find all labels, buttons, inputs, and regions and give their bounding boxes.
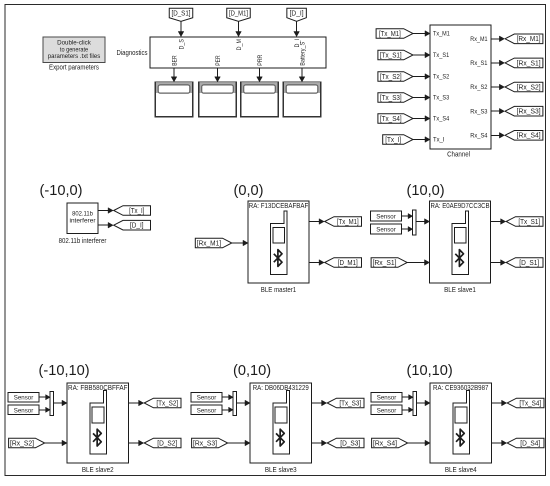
svg-text:BLE slave4: BLE slave4 xyxy=(445,465,477,474)
Diagnostics input port label D_I xyxy=(294,39,301,48)
svg-text:Tx_S3: Tx_S3 xyxy=(433,95,450,102)
annotation text (10,10) xyxy=(407,363,453,379)
Channel output port label Rx_S2 xyxy=(470,84,488,91)
svg-text:Tx_I: Tx_I xyxy=(433,137,445,144)
wire Channel -> goto tag [Rx_S4] xyxy=(491,131,543,141)
svg-text:Tx_S2: Tx_S2 xyxy=(433,74,450,81)
svg-text:(0,0): (0,0) xyxy=(234,183,264,199)
svg-text:BLE master1: BLE master1 xyxy=(261,285,296,294)
Diagnostics output port label PER xyxy=(215,55,222,66)
wire + goto tag [Tx_S1] from BLE slave1 xyxy=(491,217,544,227)
display scope for Battery_S xyxy=(283,82,321,117)
svg-text:Rx_M1: Rx_M1 xyxy=(470,36,488,43)
from tag [Rx_S2] -> BLE slave2 xyxy=(9,438,67,448)
svg-text:[Tx_M1]: [Tx_M1] xyxy=(337,219,359,226)
svg-text:[Rx_S1]: [Rx_S1] xyxy=(517,60,541,67)
wire + goto tag [Tx_I] from 802.11b interferer xyxy=(98,206,151,216)
from tag [D_I] xyxy=(287,8,307,21)
wire [D_I] -> Diagnostics xyxy=(294,21,300,36)
svg-text:BLE slave2: BLE slave2 xyxy=(82,465,114,474)
sensor blocks + mux for BLE slave3 xyxy=(191,391,250,415)
svg-text:[Rx_S2]: [Rx_S2] xyxy=(10,440,34,447)
svg-text:(10,0): (10,0) xyxy=(407,183,445,199)
Export parameters double-click block xyxy=(43,37,105,71)
wire [Tx_M1] -> Channel xyxy=(413,31,430,37)
wire + goto tag [D_M1] from BLE master1 xyxy=(309,258,362,268)
svg-text:Tx_S4: Tx_S4 xyxy=(433,116,450,123)
wire Channel -> goto tag [Rx_S2] xyxy=(491,82,543,92)
svg-text:RA: FBB580CBFFAF: RA: FBB580CBFFAF xyxy=(68,385,127,392)
wire + goto tag [Tx_M1] from BLE master1 xyxy=(309,217,362,227)
svg-text:[Rx_M1]: [Rx_M1] xyxy=(197,240,221,247)
svg-text:D_S: D_S xyxy=(178,39,185,50)
svg-text:[D_I]: [D_I] xyxy=(130,223,144,230)
svg-text:RA: E0AE9D7CC3CB: RA: E0AE9D7CC3CB xyxy=(430,203,489,210)
sensor blocks + mux for BLE slave2 xyxy=(8,391,67,415)
wire + goto tag [D_S4] from BLE slave4 xyxy=(492,438,545,448)
from tag [Rx_S3] -> BLE slave3 xyxy=(192,438,250,448)
wire + goto tag [D_S3] from BLE slave3 xyxy=(312,438,365,448)
wire [Tx_S2] -> Channel xyxy=(413,74,430,80)
svg-text:[D_I]: [D_I] xyxy=(290,11,304,18)
svg-text:Diagnostics: Diagnostics xyxy=(117,48,148,57)
svg-text:[Rx_S3]: [Rx_S3] xyxy=(517,109,541,116)
from tag [Tx_S1] xyxy=(378,50,413,60)
Channel output port label Rx_S4 xyxy=(470,133,488,140)
svg-text:[D_S1]: [D_S1] xyxy=(172,11,191,18)
Diagnostics input port label D_M xyxy=(236,39,243,50)
svg-text:[Tx_M1]: [Tx_M1] xyxy=(379,31,401,38)
svg-text:Export parameters: Export parameters xyxy=(49,62,99,71)
svg-text:[D_S4]: [D_S4] xyxy=(520,440,540,447)
wire + goto tag [D_S2] from BLE slave2 xyxy=(129,438,182,448)
Diagnostics subsystem block xyxy=(117,37,327,68)
svg-text:RA: CE936032B987: RA: CE936032B987 xyxy=(433,385,488,392)
svg-text:(0,10): (0,10) xyxy=(233,363,271,379)
Channel input port label Tx_M1 xyxy=(433,31,450,38)
Diagnostics output port label BER xyxy=(171,55,178,66)
Channel output port label Rx_S3 xyxy=(470,108,488,115)
wire [Tx_S4] -> Channel xyxy=(413,116,430,122)
svg-text:Channel: Channel xyxy=(447,150,470,159)
svg-text:Sensor: Sensor xyxy=(376,227,396,234)
svg-text:Sensor: Sensor xyxy=(377,395,397,402)
Channel input port label Tx_S4 xyxy=(433,116,450,123)
wire [D_S1] -> Diagnostics xyxy=(178,21,184,36)
svg-text:BER: BER xyxy=(171,55,178,66)
from tag [Rx_S4] -> BLE slave4 xyxy=(372,438,430,448)
from tag [D_M1] xyxy=(227,8,251,21)
display scope for PER xyxy=(199,82,237,117)
svg-text:Rx_S4: Rx_S4 xyxy=(470,133,488,140)
annotation text (-10,10) xyxy=(39,363,90,379)
svg-text:Rx_S2: Rx_S2 xyxy=(470,84,488,91)
svg-text:PRR: PRR xyxy=(257,54,264,66)
wire Diagnostics PRR -> display xyxy=(257,68,263,82)
svg-text:[Tx_S1]: [Tx_S1] xyxy=(518,219,540,226)
svg-text:(-10,0): (-10,0) xyxy=(40,183,83,199)
svg-text:Rx_S1: Rx_S1 xyxy=(470,60,488,67)
from tag [Tx_S4] xyxy=(378,114,413,124)
BLE slave4 block xyxy=(430,383,492,474)
Channel input port label Tx_S3 xyxy=(433,95,450,102)
svg-text:Sensor: Sensor xyxy=(14,395,34,402)
svg-text:[Rx_S3]: [Rx_S3] xyxy=(193,440,217,447)
svg-text:D_M: D_M xyxy=(236,39,243,50)
wire + goto tag [Tx_S4] from BLE slave4 xyxy=(492,398,545,408)
wire + goto tag [D_S1] from BLE slave1 xyxy=(491,258,544,268)
svg-text:Battery_S: Battery_S xyxy=(299,42,306,66)
Diagnostics input port label D_S xyxy=(178,39,185,50)
svg-text:Tx_M1: Tx_M1 xyxy=(433,31,450,38)
svg-text:[Tx_S3]: [Tx_S3] xyxy=(380,95,402,102)
svg-text:PER: PER xyxy=(215,55,222,66)
Diagnostics output port label Battery_S xyxy=(299,42,306,66)
svg-text:[Tx_S3]: [Tx_S3] xyxy=(339,400,361,407)
wire [D_M1] -> Diagnostics xyxy=(236,21,242,36)
from tag [Tx_S3] xyxy=(378,93,413,103)
Channel input port label Tx_S2 xyxy=(433,74,450,81)
svg-text:Sensor: Sensor xyxy=(197,407,217,414)
Channel subsystem block xyxy=(430,25,491,159)
svg-text:[Tx_S2]: [Tx_S2] xyxy=(156,400,178,407)
Channel output port label Rx_S1 xyxy=(470,60,488,67)
wire Channel -> goto tag [Rx_M1] xyxy=(491,34,543,44)
svg-text:[Rx_S1]: [Rx_S1] xyxy=(373,260,397,267)
svg-text:Sensor: Sensor xyxy=(376,214,396,221)
sensor blocks + mux for BLE slave4 xyxy=(371,391,430,415)
wire Diagnostics PER -> display xyxy=(215,68,221,82)
annotation text (-10,0) xyxy=(40,183,83,199)
svg-text:[Rx_S2]: [Rx_S2] xyxy=(517,84,541,91)
display scope for BER xyxy=(155,82,193,117)
svg-text:[Tx_S2]: [Tx_S2] xyxy=(380,74,402,81)
annotation text (0,0) xyxy=(234,183,264,199)
svg-text:Sensor: Sensor xyxy=(14,407,34,414)
svg-text:Rx_S3: Rx_S3 xyxy=(470,108,488,115)
wire Channel -> goto tag [Rx_S3] xyxy=(491,106,543,116)
svg-text:parameters .txt files: parameters .txt files xyxy=(48,53,101,60)
BLE slave3 block xyxy=(250,383,312,474)
sensor blocks + mux for BLE slave1 xyxy=(371,210,430,235)
wire [Tx_S3] -> Channel xyxy=(413,95,430,101)
Channel output port label Rx_M1 xyxy=(470,36,488,43)
from tag [D_S1] xyxy=(169,8,193,21)
svg-text:BLE slave1: BLE slave1 xyxy=(444,285,476,294)
svg-text:[Tx_I]: [Tx_I] xyxy=(385,137,401,144)
Channel input port label Tx_I xyxy=(433,137,445,144)
wire [Tx_S1] -> Channel xyxy=(413,52,430,58)
svg-text:[Rx_S4]: [Rx_S4] xyxy=(517,133,541,140)
annotation text (10,0) xyxy=(407,183,445,199)
svg-text:802.11b interferer: 802.11b interferer xyxy=(59,236,107,245)
annotation text (0,10) xyxy=(233,363,271,379)
wire Channel -> goto tag [Rx_S1] xyxy=(491,58,543,68)
from tag [Tx_I] xyxy=(383,135,413,145)
svg-text:[Tx_S1]: [Tx_S1] xyxy=(380,52,402,59)
svg-text:[D_S3]: [D_S3] xyxy=(340,440,360,447)
from tag [Tx_S2] xyxy=(378,72,413,82)
svg-text:[D_M1]: [D_M1] xyxy=(338,260,358,267)
svg-text:RA: F13DCEBAFBAF: RA: F13DCEBAFBAF xyxy=(249,203,309,210)
Channel input port label Tx_S1 xyxy=(433,52,450,59)
svg-text:[Rx_M1]: [Rx_M1] xyxy=(517,36,541,43)
svg-text:interferer: interferer xyxy=(70,218,97,225)
wire Diagnostics BER -> display xyxy=(171,68,177,82)
BLE master1 block xyxy=(248,201,309,294)
svg-text:Sensor: Sensor xyxy=(197,395,217,402)
wire + goto tag [D_I] from 802.11b interferer xyxy=(98,220,151,230)
Diagnostics output port label PRR xyxy=(257,54,264,66)
svg-text:[D_S1]: [D_S1] xyxy=(519,260,539,267)
svg-text:[Tx_I]: [Tx_I] xyxy=(129,208,144,215)
BLE slave1 block xyxy=(430,201,491,294)
svg-text:802.11b: 802.11b xyxy=(72,210,93,217)
from tag [Tx_M1] xyxy=(376,29,413,39)
display scope for PRR xyxy=(241,82,279,117)
svg-text:[Tx_S4]: [Tx_S4] xyxy=(519,400,541,407)
wire Diagnostics Battery_S -> display xyxy=(299,68,305,82)
wire [Tx_I] -> Channel xyxy=(413,137,430,143)
svg-text:(10,10): (10,10) xyxy=(407,363,453,379)
svg-text:Sensor: Sensor xyxy=(377,407,397,414)
svg-text:BLE slave3: BLE slave3 xyxy=(265,465,297,474)
from tag [Rx_M1] -> BLE master1 xyxy=(195,238,248,248)
802.11b interferer block xyxy=(59,203,107,245)
svg-text:[D_M1]: [D_M1] xyxy=(229,11,248,18)
BLE slave2 block xyxy=(67,383,129,474)
from tag [Rx_S1] -> BLE slave1 xyxy=(371,258,429,268)
wire + goto tag [Tx_S3] from BLE slave3 xyxy=(312,398,365,408)
svg-text:[Tx_S4]: [Tx_S4] xyxy=(380,116,402,123)
svg-text:RA: DB06DB431229: RA: DB06DB431229 xyxy=(253,385,309,392)
svg-text:(-10,10): (-10,10) xyxy=(39,363,90,379)
wire + goto tag [Tx_S2] from BLE slave2 xyxy=(129,398,182,408)
svg-text:Tx_S1: Tx_S1 xyxy=(433,52,450,59)
svg-text:[D_S2]: [D_S2] xyxy=(157,440,177,447)
svg-text:[Rx_S4]: [Rx_S4] xyxy=(373,440,397,447)
